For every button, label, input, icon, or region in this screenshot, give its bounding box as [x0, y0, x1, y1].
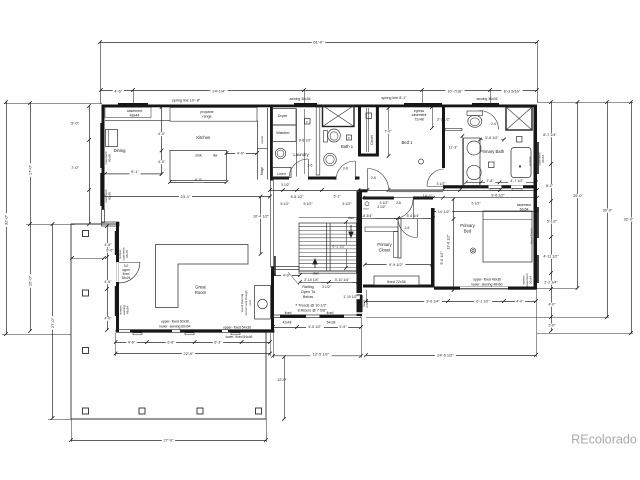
svg-text:2'-0": 2'-0" — [548, 324, 556, 328]
primary bath vanity — [464, 138, 482, 188]
primary bath toilet — [467, 111, 483, 127]
svg-text:ovens: ovens — [260, 136, 264, 145]
closet shelf lines — [367, 108, 369, 152]
svg-text:9'-8 1/2": 9'-8 1/2" — [299, 139, 313, 143]
entry south dim chain — [271, 325, 363, 329]
svg-text:32'-0": 32'-0" — [3, 214, 8, 225]
svg-text:10'-4 1/2": 10'-4 1/2" — [253, 215, 270, 219]
dim line 14'-1 / 9'-6 1/2 — [361, 196, 539, 200]
svg-text:5 1/2": 5 1/2" — [342, 202, 352, 206]
dim 24'-6 1/2" — [364, 290, 538, 358]
symbols: squares — [305, 113, 523, 168]
svg-text:Linen: Linen — [277, 172, 286, 176]
svg-text:3 1/2": 3 1/2" — [322, 285, 332, 289]
svg-text:Open To: Open To — [301, 290, 315, 294]
svg-text:3'-10 1/4": 3'-10 1/4" — [304, 278, 320, 282]
dim 14'-1/2" primary bed — [431, 210, 539, 214]
svg-text:5'-2": 5'-2" — [546, 184, 554, 188]
svg-text:dwn: dwn — [313, 271, 319, 275]
bed1 west wall — [376, 105, 379, 157]
left dim 32'-0" — [2, 100, 102, 336]
svg-text:fridge: fridge — [260, 167, 264, 175]
svg-text:27'-0": 27'-0" — [164, 437, 175, 442]
left exterior wall lower — [115, 222, 119, 332]
svg-text:12'-5 1/2": 12'-5 1/2" — [313, 351, 330, 356]
svg-text:61'-0": 61'-0" — [313, 39, 324, 44]
svg-text:26x60: 26x60 — [365, 299, 369, 308]
primary bed south wall — [434, 287, 537, 290]
svg-text:Bed 1: Bed 1 — [402, 140, 414, 145]
hall south wall right (closet top) — [363, 197, 433, 200]
bath1 F symbol — [347, 135, 352, 140]
svg-text:lower- fixed 54x46: lower- fixed 54x46 — [226, 335, 253, 339]
window labels entry south — [282, 311, 335, 325]
svg-text:3'-10 1/4": 3'-10 1/4" — [335, 278, 351, 282]
svg-text:72x48: 72x48 — [414, 117, 423, 121]
primary closet east wall — [431, 208, 435, 287]
svg-text:s:oo: s:oo — [363, 207, 369, 211]
svg-text:8'-0": 8'-0" — [195, 178, 203, 182]
dim 7'-0" bed1 — [383, 106, 393, 158]
svg-text:24'-6 1/2": 24'-6 1/2" — [437, 352, 454, 357]
svg-text:30x54: 30x54 — [520, 208, 529, 212]
svg-text:42x48: 42x48 — [283, 320, 292, 324]
closet hall door arc — [394, 200, 414, 219]
entry door arc great room — [119, 262, 140, 283]
svg-text:5 1/2": 5 1/2" — [303, 202, 313, 206]
svg-text:54x38: 54x38 — [327, 320, 336, 324]
svg-text:fixed: fixed — [327, 311, 334, 315]
kitchen counter — [105, 108, 257, 122]
svg-text:dwn: dwn — [348, 216, 354, 220]
svg-text:awning 36x36: awning 36x36 — [290, 97, 311, 101]
svg-text:5'-5 1/2": 5'-5 1/2" — [308, 325, 322, 329]
svg-text:6'-5 1/2": 6'-5 1/2" — [291, 195, 305, 199]
svg-text:9'-6 1/2": 9'-6 1/2" — [491, 193, 505, 197]
right dim chain x551 — [541, 100, 561, 333]
svg-text:7'-0": 7'-0" — [71, 165, 79, 170]
svg-text:5'-1/2": 5'-1/2" — [547, 220, 558, 224]
svg-text:F: F — [348, 136, 350, 140]
stair railing half wall — [272, 267, 300, 270]
dim 2'-8" / 4'-7 1/2" — [436, 179, 537, 186]
top secondary dim chain — [99, 88, 539, 104]
svg-text:14'-1/2": 14'-1/2" — [438, 210, 451, 214]
svg-text:27'-0": 27'-0" — [50, 317, 55, 328]
right dim 32'-0" — [537, 100, 635, 335]
svg-text:32'-0": 32'-0" — [624, 218, 634, 222]
svg-text:5'-1": 5'-1" — [334, 195, 342, 199]
south wall entry — [273, 315, 361, 318]
dim 4'-0" island-fridge — [225, 151, 259, 155]
dim 22'-0" — [114, 351, 272, 356]
svg-text:30'-0": 30'-0" — [603, 209, 613, 213]
svg-text:26'-0": 26'-0" — [573, 194, 583, 198]
primary bath south wall — [443, 185, 537, 190]
svg-text:spring line 8'-1": spring line 8'-1" — [381, 96, 407, 100]
left wall jog — [102, 210, 120, 227]
svg-text:6'-0": 6'-0" — [106, 249, 114, 253]
svg-text:7 Treads @ 10 1/2": 7 Treads @ 10 1/2" — [295, 304, 327, 308]
overall width dim 61'-0" — [98, 39, 539, 104]
svg-text:egress: egress — [522, 275, 526, 285]
symbols: ceiling lights — [419, 159, 476, 253]
svg-text:4'-0": 4'-0" — [158, 160, 166, 164]
primary bath tub — [511, 148, 531, 178]
left dim chain 5'-0"/7'-0" — [71, 104, 91, 226]
east wall great room — [271, 180, 276, 332]
laundry door arc — [289, 159, 309, 178]
svg-text:13'-6 1/2": 13'-6 1/2" — [447, 234, 451, 250]
dim 9'-9 1/2" closet — [363, 263, 434, 267]
dim 10'-4 1/2" — [251, 195, 272, 256]
svg-text:4'-0": 4'-0" — [516, 299, 524, 303]
svg-text:Primary Bath: Primary Bath — [480, 149, 505, 154]
svg-text:range: range — [202, 115, 211, 119]
dining table — [106, 130, 118, 147]
dim 3'-3 1/2" bath nook — [430, 105, 452, 130]
dim 11'-3" primary bath — [449, 134, 465, 189]
svg-text:5'-6 1/2": 5'-6 1/2" — [485, 136, 499, 140]
primary south dim chain — [364, 290, 538, 304]
south wall great room — [116, 330, 274, 335]
svg-text:2-4: 2-4 — [491, 122, 496, 126]
svg-text:Bed: Bed — [464, 228, 472, 233]
svg-text:REcolorado: REcolorado — [571, 433, 637, 447]
svg-text:4'-6": 4'-6" — [104, 243, 112, 247]
svg-text:4'-6": 4'-6" — [104, 280, 112, 284]
svg-text:spring line 10'- 8": spring line 10'- 8" — [172, 98, 201, 102]
svg-text:Railing: Railing — [302, 285, 314, 289]
svg-text:48x94: 48x94 — [126, 306, 130, 315]
svg-text:11'-3": 11'-3" — [449, 146, 459, 150]
deck dim 12'-0" — [277, 355, 288, 421]
svg-text:6'-3": 6'-3" — [214, 340, 222, 344]
svg-text:Primary: Primary — [377, 242, 392, 247]
svg-text:36x54: 36x54 — [541, 155, 545, 164]
bath1 door arc — [336, 161, 356, 180]
dim 6'-1 1/2" stairs vertical — [330, 220, 348, 270]
svg-text:23'-1": 23'-1" — [181, 194, 192, 199]
bath1 shower — [323, 106, 355, 127]
washer box — [273, 125, 297, 142]
primary bath shower — [506, 107, 532, 130]
stair labels — [288, 216, 354, 313]
svg-text:36x70: 36x70 — [125, 250, 129, 259]
svg-text:fixed 72x24: fixed 72x24 — [529, 228, 533, 244]
landing edge above stairs — [299, 217, 357, 219]
svg-text:9'-9 1/2": 9'-9 1/2" — [389, 263, 404, 267]
primary closet shelves — [365, 227, 398, 258]
svg-text:roof: roof — [248, 300, 252, 305]
window labels south great room — [159, 319, 254, 339]
svg-text:fixed: fixed — [285, 311, 292, 315]
primary closet divider wall — [398, 219, 401, 259]
deck outline — [71, 224, 266, 419]
left dim 17'-0" / 15'-0" — [26, 101, 75, 333]
bath1 closet west wall — [358, 105, 361, 157]
svg-text:1'-10 1/2": 1'-10 1/2" — [343, 295, 358, 299]
svg-text:2-6: 2-6 — [308, 164, 313, 168]
east wall stairs/entry — [355, 192, 363, 317]
svg-text:10'-7/16": 10'-7/16" — [447, 89, 463, 94]
bed1 south wall — [359, 189, 444, 192]
east exterior wall — [534, 105, 539, 290]
deck posts — [83, 231, 262, 415]
right dim 26'-0" — [537, 100, 584, 290]
svg-text:Dining: Dining — [114, 148, 127, 153]
svg-text:5 1/2": 5 1/2" — [280, 202, 290, 206]
fridge / oven column — [257, 108, 268, 180]
svg-text:3 1/2": 3 1/2" — [281, 183, 291, 187]
wood stove — [255, 286, 271, 320]
svg-text:dw: dw — [213, 153, 218, 157]
svg-text:6'-3 5/16": 6'-3 5/16" — [504, 89, 521, 94]
svg-text:2'-2 3/4": 2'-2 3/4" — [544, 281, 558, 285]
svg-text:4'-11 1/2": 4'-11 1/2" — [543, 255, 559, 259]
svg-text:4'-7 1/2": 4'-7 1/2" — [510, 179, 524, 183]
svg-text:9'-6 1/4": 9'-6 1/4" — [426, 299, 440, 303]
svg-text:4'-0": 4'-0" — [237, 151, 245, 155]
svg-text:9'-6 1/2": 9'-6 1/2" — [440, 251, 444, 265]
window labels left wall — [104, 151, 130, 314]
casement 48x44 label — [105, 107, 151, 117]
laundry west wall — [270, 105, 273, 181]
svg-text:48x44: 48x44 — [130, 113, 140, 117]
svg-text:Kitchen: Kitchen — [196, 135, 211, 140]
svg-text:Washer: Washer — [276, 130, 290, 135]
primary bath door arc — [427, 169, 444, 187]
svg-text:Primary: Primary — [460, 223, 475, 228]
dim 23'-1" hall — [101, 194, 272, 199]
dim 8'-0" island — [168, 178, 228, 184]
svg-text:30x54: 30x54 — [529, 276, 533, 285]
svg-text:22'-0": 22'-0" — [184, 351, 195, 356]
svg-text:9'-1": 9'-1" — [131, 169, 139, 174]
bath1 toilet — [324, 129, 341, 142]
south wall closet section — [363, 276, 434, 288]
window label fixed 26x60 — [341, 295, 369, 308]
svg-text:12'-0": 12'-0" — [277, 377, 288, 382]
primary bed (bed) — [483, 211, 532, 262]
svg-text:15'-0": 15'-0" — [27, 275, 32, 286]
svg-text:upper- fixed 60x36: upper- fixed 60x36 — [161, 319, 189, 323]
laundry/bath1 divider wall — [316, 107, 320, 175]
svg-text:propane: propane — [200, 110, 213, 114]
svg-text:4'-0": 4'-0" — [548, 303, 556, 307]
left dim chain 4'-6" windows — [103, 224, 113, 332]
svg-text:temper: temper — [528, 156, 532, 165]
svg-text:2-6: 2-6 — [405, 226, 410, 230]
svg-text:upper- fixed 48x36: upper- fixed 48x36 — [473, 277, 501, 281]
kitchen island — [170, 150, 227, 180]
svg-text:Great: Great — [195, 284, 206, 289]
svg-text:3'-9": 3'-9" — [339, 325, 347, 329]
svg-text:8'-7 1/4": 8'-7 1/4" — [543, 133, 557, 137]
dim 9'-1" dining — [103, 169, 163, 176]
svg-text:upper- fixed 54x36: upper- fixed 54x36 — [223, 325, 251, 329]
room labels — [114, 135, 505, 295]
svg-text:awning 36x36: awning 36x36 — [477, 97, 498, 101]
svg-text:2-6: 2-6 — [371, 176, 376, 180]
svg-text:3 1/2": 3 1/2" — [377, 205, 387, 209]
dim hall long line — [268, 188, 539, 206]
dim 13'-6 1/2" / 9'-6 1/2" vertical — [440, 197, 455, 292]
dim 9-8 1/2 vertical line — [304, 109, 306, 174]
bed1/primary bath divider wall — [442, 105, 445, 169]
left dim 27'-0" (deck) — [48, 222, 71, 420]
symbol: switch hall — [363, 202, 369, 211]
svg-text:Laundry: Laundry — [293, 152, 309, 157]
svg-text:5'-0": 5'-0" — [71, 121, 79, 126]
closet aisle door arc — [398, 219, 418, 238]
svg-text:6'-6": 6'-6" — [167, 340, 175, 344]
svg-text:casement: casement — [127, 109, 143, 113]
svg-text:lower- awning 60x94: lower- awning 60x94 — [159, 325, 190, 329]
svg-text:24'-1/4": 24'-1/4" — [212, 89, 226, 94]
dryer box — [273, 109, 297, 126]
bath1 sink — [324, 153, 337, 166]
dim 6'-0" deck — [70, 249, 115, 260]
bottom window dim chain — [114, 333, 272, 356]
laundry sink circle — [275, 109, 296, 177]
dim 9'-8 1/2" laundry — [296, 139, 313, 143]
svg-text:Dryer: Dryer — [278, 113, 288, 118]
door label 3-0 upper fixed 36x26 — [122, 264, 131, 280]
dim 4'-8 3/4" / 5'-6 1/4" — [356, 214, 435, 220]
svg-text:Closet: Closet — [370, 135, 374, 145]
left exterior wall upper — [100, 105, 104, 210]
right dim 30'-0" — [366, 100, 614, 319]
toilet room door arc 2-4 — [480, 111, 499, 130]
dim 12'-5 1/2" — [271, 318, 363, 358]
svg-text:36x26: 36x26 — [122, 276, 131, 280]
svg-text:2-6: 2-6 — [343, 167, 348, 171]
top exterior wall — [102, 103, 537, 107]
svg-text:6'-1 1/2": 6'-1 1/2" — [476, 299, 490, 303]
dim 4'-0"/4'-0" kitchen vertical — [156, 105, 167, 176]
bath1 closet south wall — [361, 154, 377, 157]
svg-text:8 Risers @ 7 5/8": 8 Risers @ 7 5/8" — [298, 309, 328, 313]
svg-text:2-6: 2-6 — [396, 201, 401, 205]
svg-text:4'-6": 4'-6" — [128, 340, 136, 344]
window labels primary bed — [471, 203, 533, 287]
hall south wall (laundry/bath1) — [270, 177, 360, 180]
svg-text:4'-0": 4'-0" — [158, 132, 166, 136]
stairs — [299, 223, 357, 273]
svg-text:casement: casement — [517, 203, 531, 207]
svg-text:4'-0": 4'-0" — [104, 317, 112, 321]
svg-text:Below: Below — [303, 295, 314, 299]
svg-text:F: F — [306, 120, 308, 124]
door size labels — [281, 122, 496, 230]
svg-text:sink: sink — [195, 154, 202, 158]
svg-text:5 1/2": 5 1/2" — [471, 202, 481, 206]
svg-text:60x60: 60x60 — [107, 154, 111, 163]
svg-text:Closet: Closet — [379, 247, 392, 252]
svg-text:7'-0": 7'-0" — [384, 130, 392, 134]
linen closet — [273, 168, 292, 178]
dim 3'-10 1/4" stairs — [298, 278, 360, 289]
labels right wall bath — [528, 152, 545, 165]
wood stove label — [240, 290, 252, 316]
window labels top — [290, 97, 498, 122]
svg-text:fixed 72x36: fixed 72x36 — [387, 280, 405, 284]
svg-text:4'-6": 4'-6" — [114, 89, 122, 94]
deck dim 27'-0" — [69, 419, 268, 443]
svg-text:60x60: 60x60 — [107, 192, 111, 201]
toilet nook wall — [445, 129, 462, 131]
svg-text:lower- awning 48x60: lower- awning 48x60 — [471, 283, 502, 287]
dim 4'-0" entry — [271, 273, 302, 277]
svg-text:Room: Room — [195, 290, 207, 295]
svg-text:2'-8": 2'-8" — [486, 179, 494, 183]
bed1 door arc — [368, 169, 389, 190]
svg-text:Bath 1: Bath 1 — [341, 144, 354, 149]
svg-text:17'-0": 17'-0" — [27, 164, 32, 175]
dim 5'-6 1/2" — [478, 136, 506, 141]
great room sofa — [156, 245, 249, 308]
